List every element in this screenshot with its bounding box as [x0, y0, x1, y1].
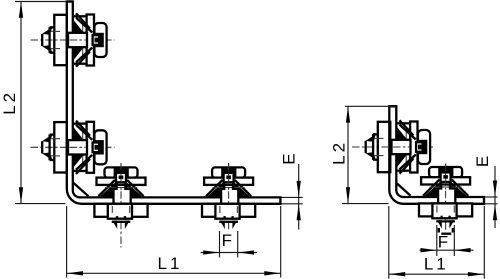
svg-text:E: E [473, 153, 492, 167]
L1 dimension line [67, 272, 281, 274]
corner rib [73, 183, 89, 197]
svg-text:L2: L2 [0, 90, 19, 115]
bolt assembly 1 on vertical leg [42, 13, 107, 66]
bolt assembly 4 on horizontal leg [202, 167, 255, 229]
bolt assembly 3 on horizontal leg [94, 167, 147, 229]
F arrow left [238, 250, 254, 254]
L2 arrow down [19, 187, 23, 203]
bolt assembly on vertical leg right view [366, 120, 431, 173]
L2 dimension line [20, 2, 22, 204]
L1 right extension line [280, 206, 282, 278]
F right extension line [237, 231, 239, 258]
centerline bolt 1 [31, 39, 115, 41]
svg-text:E: E [279, 150, 298, 164]
svg-text:L1: L1 [424, 254, 449, 273]
centerline over bolt 6 head [445, 164, 447, 185]
E arrow up [297, 204, 301, 220]
L2 right arrow up [346, 107, 350, 123]
F right extension line right [453, 225, 455, 256]
E dimension line right [494, 166, 496, 228]
L2 bottom extension line [15, 203, 66, 205]
L2 bottom extension line right [342, 203, 389, 205]
F arrow right [203, 250, 219, 254]
E right arrow up [493, 204, 497, 220]
centerline over bolt 4 head [228, 163, 230, 185]
F dimension line right [420, 249, 474, 251]
centerline bolt 2 [31, 146, 115, 148]
bolt assembly 2 on vertical leg [42, 121, 107, 174]
L2 arrow up [19, 2, 23, 18]
F left extension line right [436, 225, 438, 256]
E dimension line [298, 164, 300, 230]
L1 left extension line right [388, 206, 390, 279]
centerline bolt 5 [352, 146, 433, 148]
plate top edge right view [389, 105, 396, 107]
svg-text:F: F [438, 233, 451, 252]
svg-text:L2: L2 [330, 140, 349, 165]
L2 top extension line right [345, 105, 396, 107]
F right arrow left [455, 248, 471, 252]
L1 arrow right [264, 271, 280, 275]
L2 top extension line [15, 1, 66, 3]
L1 right arrow left [389, 272, 405, 276]
E top extension line right [485, 196, 498, 198]
left view: angle bracket profile [67, 2, 281, 204]
nut skirt right view [438, 228, 440, 233]
E top extension line [282, 196, 303, 198]
L1 dimension line right [389, 273, 485, 275]
right view: angle bracket profile [389, 106, 484, 204]
L2 right arrow down [346, 187, 350, 203]
L1 arrow left [67, 271, 83, 275]
bolt assembly on horizontal leg right view [419, 167, 472, 229]
L1 left extension line [66, 206, 68, 278]
E right arrow down [493, 181, 497, 197]
E bottom extension line [282, 203, 303, 205]
centerline bolt 3 [120, 163, 122, 248]
L2 dimension line right [347, 106, 349, 203]
L1 right arrow right [468, 272, 484, 276]
centerline over bolt 3 head [120, 163, 122, 185]
plate top edge [67, 0, 73, 2]
L1 right extension line right [483, 206, 485, 279]
F left extension line [219, 231, 221, 258]
E arrow down [297, 181, 301, 197]
centerline bolt 4 [228, 163, 230, 232]
F dimension line [201, 252, 257, 254]
E bottom extension line right [485, 203, 498, 205]
corner rib right view [397, 183, 411, 196]
svg-text:F: F [222, 231, 235, 250]
svg-text:L1: L1 [158, 254, 183, 273]
F right arrow right [421, 248, 437, 252]
centerline bolt 6 [445, 164, 447, 232]
